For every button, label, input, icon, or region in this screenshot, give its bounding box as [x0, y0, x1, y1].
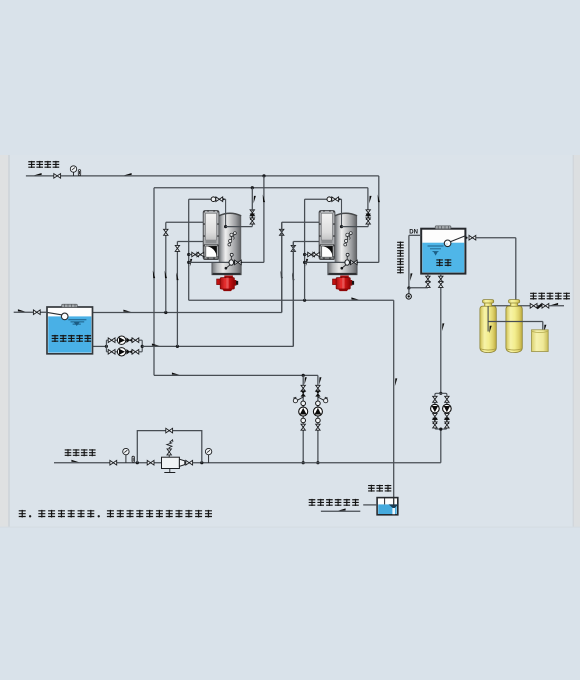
tank lid	[62, 304, 78, 307]
arrow into salt tank	[544, 325, 546, 333]
flange ring	[301, 418, 306, 423]
sight circle on loop boiler2	[327, 197, 332, 202]
water tank lid	[435, 226, 451, 229]
pipe: loop drop into boiler1 shell	[225, 199, 227, 226]
pipe: boiler feed line to bottom pump set	[154, 374, 318, 376]
valve on v3	[291, 245, 295, 251]
junction right pump split	[439, 392, 442, 395]
column bottom valve	[445, 422, 449, 428]
tank water	[48, 316, 91, 352]
valve on v2	[164, 229, 168, 235]
pipe: pump discharge header	[142, 345, 293, 347]
drain direction arrow line	[321, 510, 360, 512]
valve on loop boiler2	[332, 197, 339, 202]
junction discharge/boiler1 v3	[176, 345, 179, 348]
flange ring	[316, 401, 321, 406]
flange dot at wall	[465, 237, 467, 239]
pump motor cone	[179, 459, 184, 466]
tank drain outlet with valves	[427, 274, 429, 288]
junction v4/outlet pipe	[187, 261, 190, 264]
pipe: boiler1 return riser v3	[176, 242, 178, 347]
flange ring	[316, 418, 321, 423]
small instrument above outlet	[346, 253, 349, 259]
union valve bottom of stack	[366, 218, 370, 224]
flow arrow up v3	[292, 273, 294, 281]
valve on v2	[280, 229, 284, 235]
check valve after pump	[127, 349, 133, 354]
outlet valve 2	[439, 281, 443, 287]
flow arrow up riser B1	[263, 195, 265, 203]
pump discharge valve	[132, 338, 139, 343]
valve below pump	[433, 414, 437, 420]
boiler B2 shell cylinder	[335, 213, 357, 263]
pipe: left down riser v1	[153, 188, 155, 376]
check valve	[433, 418, 438, 424]
flange dot	[356, 262, 358, 264]
pipe: boiler2 lower inlet	[293, 241, 319, 243]
junction bypass right	[200, 461, 203, 464]
blow-off valve 1	[192, 252, 199, 257]
thermometer before pump	[132, 456, 134, 462]
photo panel background	[9, 155, 573, 527]
drain valve 1	[426, 276, 430, 282]
right page margin strip	[573, 155, 580, 527]
flow arrow up v1	[153, 271, 155, 279]
junction pump column split	[302, 374, 305, 377]
pipe: boiler2 hot outlet riser	[378, 176, 380, 263]
junction inside boiler1 shell	[224, 225, 227, 228]
pipe: boiler2 check riser lower	[367, 211, 369, 227]
pipe: boiler2 shell to check riser	[342, 226, 369, 228]
valve on hot outlet	[350, 260, 357, 265]
pipe: right pump column x=434.9	[434, 396, 436, 426]
boiler B1 base skirt	[212, 263, 241, 275]
pipe: boiler2 check riser upper	[367, 188, 369, 211]
bypass loop over return pump	[137, 431, 202, 463]
pipe: boiler1 blow-off	[189, 254, 204, 256]
valve on v3	[175, 245, 179, 251]
boiler B2 level gauge on shell	[346, 234, 349, 242]
column check valve	[301, 391, 306, 397]
flow arrow down v4	[190, 259, 192, 267]
arrow into tank1	[489, 326, 491, 334]
note 注：此图为示意图，安装以实际安装图纸为准	[19, 510, 212, 518]
flow arrow left	[124, 173, 132, 175]
junction: line2 / boiler1 check riser	[251, 186, 254, 189]
tap strainer symbol	[537, 304, 543, 310]
pipe: boiler2 vent loop top	[305, 198, 342, 200]
boiler B1 shell cylinder	[219, 213, 241, 263]
softener tank 1 cap	[485, 302, 492, 306]
pipe: pump column x=303.2	[302, 375, 304, 462]
float ball and arm	[450, 236, 465, 242]
water surface mark	[428, 246, 444, 255]
label 水箱	[436, 259, 451, 266]
drain cock dot	[341, 267, 344, 270]
thermometer on hot header	[78, 170, 80, 176]
column top valve	[301, 385, 305, 391]
pipe: boiler2 return riser v3	[292, 242, 294, 347]
flow arrow up v2	[281, 271, 283, 279]
pipe: sanitary tank to circulating pumps	[93, 345, 106, 347]
label 卫生热水箱	[52, 335, 91, 342]
boiler B2 feed pump (red)	[333, 279, 338, 285]
pipe: sanitary tank outlet header	[93, 312, 282, 314]
column bottom valve	[316, 424, 320, 430]
flow arrow left	[34, 173, 42, 175]
softener internal drop pipe	[487, 306, 489, 331]
check valve stack	[366, 214, 371, 220]
flow arrow down riser A2	[369, 196, 371, 204]
label 回水管道	[65, 449, 96, 456]
junction pump rejoin	[141, 345, 144, 348]
sight circle on loop boiler1	[211, 197, 216, 202]
pipe: boiler2 inlet riser v2b	[281, 222, 283, 312]
flow arrow left to sewer	[338, 508, 346, 510]
union valve bottom of stack	[250, 218, 254, 224]
pipe: water tank outlet down pipe	[440, 287, 442, 394]
blow-off valve 2	[197, 252, 204, 257]
pipe: right pump join bracket	[435, 426, 447, 429]
pressure gauge on hot header	[70, 166, 76, 172]
tap valve 2	[542, 304, 549, 309]
small instrument above outlet	[230, 253, 233, 259]
water surface mark	[68, 320, 86, 324]
gauge stem left of left pump column	[298, 397, 304, 400]
flange ring	[301, 401, 306, 406]
pressure pump (down)	[431, 404, 440, 413]
union valve top of stack	[366, 210, 370, 216]
sanitary hot water tank 卫生热水箱	[47, 307, 93, 354]
junction v4/outlet pipe	[303, 261, 306, 264]
pipe: loop drop into boiler2 shell	[341, 199, 343, 226]
column bottom valve	[433, 422, 437, 428]
drain cock stem	[227, 265, 231, 268]
flow arrow up v3	[176, 273, 178, 281]
pipe: pump parallel branches	[106, 340, 142, 352]
svg-text:DN: DN	[409, 229, 418, 235]
float arm and ball	[47, 312, 62, 315]
flow arrow right on drain header	[351, 297, 359, 299]
water tank 水箱 shell	[421, 229, 465, 274]
flow arrow up riser B2	[378, 195, 380, 203]
check valve after pump	[127, 338, 133, 343]
check valve stack	[250, 214, 255, 220]
column top valve	[316, 385, 320, 391]
flange oval at shell outlet	[345, 260, 350, 266]
label 自来水管道	[530, 293, 570, 300]
left page margin strip	[0, 155, 9, 527]
drain cock stem	[343, 265, 347, 268]
pipe: boiler2 upper inlet	[282, 221, 320, 223]
pressure gauge before pump	[123, 448, 129, 454]
float feed valve	[469, 235, 476, 240]
junction v4/blowoff pipe	[303, 253, 306, 256]
flow arrow down overflow	[410, 273, 412, 281]
flow arrow down v4	[306, 259, 308, 267]
pipe: boiler1 check riser lower	[251, 211, 253, 227]
pump suction valve	[108, 350, 115, 355]
bottom section boundary	[0, 527, 580, 528]
column top valve	[433, 396, 437, 402]
circulating pump	[117, 348, 125, 356]
flow arrow right	[123, 310, 131, 312]
pipe: boiler2 blow-off	[305, 254, 320, 256]
valve on hot outlet	[235, 260, 242, 265]
pipe: boiler1 drain collector v4	[188, 199, 190, 300]
flange dot	[223, 198, 225, 200]
bolt dots	[319, 210, 334, 259]
junction: boiler1 hot riser / header	[262, 174, 265, 177]
pipe: right pump set down leg	[440, 429, 442, 463]
tank supply outlet with valves	[440, 274, 442, 287]
flow arrow down drain drop	[395, 378, 397, 386]
junction pump split	[105, 345, 108, 348]
pipe: boiler2 inlet riser v2	[281, 222, 283, 312]
softener tank 1 body	[480, 306, 496, 352]
flow arrow right	[71, 460, 79, 462]
junction header/boiler1 v2	[164, 311, 167, 314]
pump foot	[164, 469, 175, 473]
pipe: tank drain to overflow junction	[409, 287, 428, 289]
pipe: boiler1 inlet riser v2	[165, 222, 167, 312]
pipe: drop inside pool	[393, 497, 395, 506]
relief spring and lever	[167, 440, 173, 449]
pipe: return water main 回水管道	[54, 462, 441, 464]
tap water line 自来水管道	[487, 305, 564, 307]
pressure gauge after pump	[205, 448, 211, 454]
pipe: pump column x=317.9	[317, 375, 319, 462]
boiler B2 burner box	[320, 244, 334, 258]
check valve	[445, 418, 450, 424]
pipe: right pump split bracket	[435, 393, 447, 396]
pipe: boiler1 shell to check riser	[226, 226, 253, 228]
junction drain header / boiler2 v4	[303, 299, 306, 302]
flow arrow down	[442, 323, 444, 331]
bypass valve	[166, 428, 173, 433]
flow arrow down riser A1	[254, 196, 256, 204]
pipe: hot water supply header 热水管道	[26, 175, 379, 177]
blow-off valve 1	[308, 252, 315, 257]
pipe: float feed from softener	[476, 237, 516, 239]
valve on loop boiler1	[216, 197, 223, 202]
boiler B1 burner box	[204, 244, 218, 258]
column bottom valve	[301, 424, 305, 430]
junction v4/blowoff pipe	[187, 253, 190, 256]
circulating pump	[117, 336, 125, 344]
flow arrow into tank	[18, 309, 26, 311]
pipe: softener cross line	[488, 321, 543, 323]
pump suction valve	[108, 338, 115, 343]
junction column/return main	[302, 461, 305, 464]
pipe: boiler2 return riser v3b	[292, 242, 294, 347]
boiler B1 feed pump (red)	[217, 279, 222, 285]
salt tank	[532, 330, 549, 352]
relief valve stem	[168, 455, 170, 458]
boiler circulating pump	[299, 407, 308, 416]
pump outlet valve	[186, 460, 193, 465]
pipe: boiler2 drain collector v4	[304, 199, 306, 300]
pipe: float feed riser	[515, 238, 517, 322]
pipe: boiler1 vent loop top	[189, 198, 226, 200]
blow-off valve 2	[313, 252, 320, 257]
pipe: overflow drop 溢排水管	[408, 235, 410, 288]
bolt dots	[203, 210, 218, 259]
flow arrow down	[304, 377, 306, 385]
pipe: boiler1 upper inlet	[166, 221, 204, 223]
pipe: drain drop to sewage pool	[393, 300, 395, 505]
pump inlet valve	[147, 460, 154, 465]
column check valve	[316, 391, 321, 397]
label 污水池	[368, 485, 391, 492]
pipe: boiler top feed header (line2)	[154, 187, 368, 189]
sewage pool 污水池	[377, 498, 398, 515]
pipe: overflow outlet stub	[408, 288, 410, 294]
boiler B1 level gauge on shell	[230, 234, 233, 242]
softener tank 2 cap	[511, 302, 518, 306]
flange dot	[350, 262, 352, 264]
pipe: boiler2 hot outlet	[305, 261, 379, 263]
flange dot	[240, 262, 242, 264]
water tank water	[422, 243, 464, 273]
pipe: boiler1 hot outlet	[189, 261, 264, 263]
label 热水管道	[28, 161, 59, 168]
outlet valve 1	[439, 276, 443, 282]
label 溢排水管 (vertical)	[397, 242, 404, 274]
flow arrow right	[172, 373, 180, 375]
pipe: right pump column x=446.9	[446, 396, 448, 426]
flow arrow down	[319, 377, 321, 385]
pressure pump (down)	[443, 404, 452, 413]
softener tank 2 body	[506, 306, 522, 352]
drain cock dot	[225, 267, 228, 270]
pipe: boiler1 check riser upper	[251, 188, 253, 211]
junction overflow/tank drain	[407, 286, 410, 289]
tank inlet valve	[33, 310, 40, 315]
flange dot	[339, 198, 341, 200]
flow arrow right	[152, 344, 160, 346]
label 接至排水管网	[309, 499, 359, 506]
flange dot	[234, 262, 236, 264]
junction column/return main	[316, 461, 319, 464]
return line pump body	[162, 457, 180, 468]
pipe: boiler1 lower inlet	[177, 241, 203, 243]
boiler B2 heat exchanger unit	[319, 210, 357, 291]
flow arrow left (tap water in)	[551, 303, 559, 305]
gauge stem right of right pump column	[318, 397, 324, 400]
valve below pump	[445, 414, 449, 420]
union valve top of stack	[250, 210, 254, 216]
valve on return main	[110, 460, 117, 465]
pipe: boiler1 hot outlet riser	[263, 176, 265, 263]
pipe: pool outlet stub	[363, 504, 377, 506]
boiler B1 heat exchanger unit	[203, 210, 241, 291]
boiler B2 base skirt	[328, 263, 357, 275]
junction right pump rejoin	[439, 428, 442, 431]
flange oval at shell outlet	[229, 260, 234, 266]
drain valve 2	[426, 281, 430, 287]
valve on hot water header	[54, 174, 61, 179]
column top valve	[445, 396, 449, 402]
junction bypass left	[136, 461, 139, 464]
flow arrow up v2	[165, 271, 167, 279]
tank inlet pipe	[14, 311, 48, 313]
pipe: drop into salt tank	[542, 322, 544, 331]
pipe: blow-down drain header	[189, 299, 394, 301]
DN overflow stub	[409, 234, 421, 236]
junction inside boiler2 shell	[340, 225, 343, 228]
overflow outlet symbol	[406, 294, 411, 299]
pump discharge valve	[132, 350, 139, 355]
boiler circulating pump	[313, 407, 322, 416]
relief valve on pump	[167, 449, 171, 455]
tap valve 1	[530, 304, 537, 309]
